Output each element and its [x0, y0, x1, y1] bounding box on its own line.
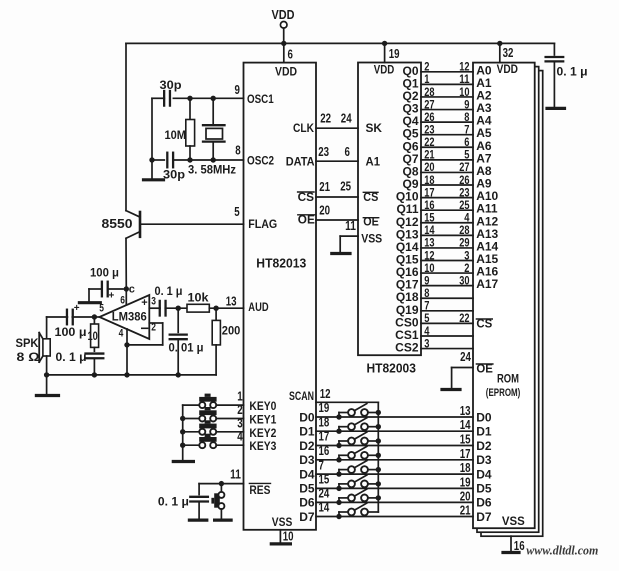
- svg-text:21: 21: [319, 180, 330, 194]
- svg-text:DATA: DATA: [286, 155, 315, 169]
- svg-text:OSC2: OSC2: [247, 154, 274, 168]
- svg-text:6: 6: [345, 145, 350, 159]
- svg-text:OE: OE: [298, 213, 315, 227]
- svg-text:17: 17: [460, 447, 471, 461]
- svg-text:SK: SK: [366, 121, 383, 135]
- svg-text:18: 18: [460, 461, 471, 475]
- svg-text:24: 24: [341, 112, 352, 126]
- svg-text:CS2: CS2: [395, 341, 419, 355]
- svg-text:D1: D1: [299, 425, 315, 439]
- svg-text:KEY2: KEY2: [249, 426, 276, 440]
- svg-text:ROM: ROM: [497, 372, 519, 386]
- svg-text:HT82013: HT82013: [256, 256, 306, 270]
- svg-text:3. 58MHz: 3. 58MHz: [188, 163, 236, 177]
- svg-text:5: 5: [99, 303, 104, 315]
- svg-text:16: 16: [319, 444, 330, 458]
- svg-text:10: 10: [283, 530, 294, 544]
- svg-text:11: 11: [230, 467, 241, 481]
- svg-text:D4: D4: [476, 467, 492, 481]
- svg-text:D5: D5: [299, 482, 315, 496]
- svg-text:c: c: [129, 284, 135, 296]
- svg-text:6: 6: [288, 48, 293, 62]
- svg-text:19: 19: [319, 401, 330, 415]
- svg-text:D5: D5: [476, 482, 492, 496]
- svg-text:20: 20: [460, 489, 471, 503]
- svg-text:VDD: VDD: [497, 62, 519, 76]
- svg-text:D6: D6: [476, 496, 492, 510]
- svg-text:5: 5: [234, 205, 239, 219]
- svg-text:8: 8: [235, 144, 240, 158]
- svg-text:30p: 30p: [163, 168, 185, 182]
- svg-text:17: 17: [319, 430, 330, 444]
- svg-text:19: 19: [389, 47, 400, 61]
- svg-text:4: 4: [119, 328, 124, 340]
- svg-text:0. 01 μ: 0. 01 μ: [169, 341, 204, 355]
- svg-text:13: 13: [226, 295, 237, 309]
- svg-text:KEY3: KEY3: [249, 439, 276, 453]
- svg-text:4: 4: [237, 430, 242, 444]
- svg-text:+: +: [109, 291, 115, 302]
- svg-text:CS: CS: [476, 317, 492, 331]
- svg-text:VDD: VDD: [374, 63, 395, 77]
- svg-text:0. 1 μ: 0. 1 μ: [155, 284, 183, 298]
- svg-text:SPK: SPK: [16, 336, 39, 350]
- svg-text:13: 13: [460, 404, 471, 418]
- svg-text:D0: D0: [299, 410, 315, 424]
- svg-text:12: 12: [320, 387, 331, 401]
- svg-text:CS: CS: [363, 190, 378, 204]
- svg-text:D7: D7: [476, 510, 492, 524]
- svg-text:19: 19: [460, 475, 471, 489]
- svg-text:22: 22: [320, 112, 331, 126]
- svg-text:0. 1 μ: 0. 1 μ: [557, 65, 588, 79]
- svg-text:24: 24: [460, 350, 471, 364]
- svg-text:14: 14: [460, 418, 471, 432]
- svg-text:OE: OE: [476, 362, 493, 376]
- svg-text:+: +: [74, 303, 80, 314]
- svg-text:3: 3: [237, 416, 242, 430]
- svg-text:A1: A1: [366, 155, 381, 169]
- svg-text:D2: D2: [299, 439, 315, 453]
- svg-text:+: +: [141, 297, 147, 309]
- svg-text:VSS: VSS: [502, 514, 525, 528]
- svg-text:LM386: LM386: [112, 310, 147, 324]
- svg-text:10M: 10M: [165, 128, 187, 142]
- svg-text:D1: D1: [476, 425, 492, 439]
- svg-text:HT82003: HT82003: [367, 362, 416, 376]
- svg-text:D2: D2: [476, 439, 492, 453]
- svg-text:18: 18: [319, 415, 330, 429]
- svg-text:3: 3: [424, 336, 429, 350]
- svg-text:OE: OE: [363, 215, 379, 229]
- svg-text:25: 25: [340, 180, 351, 194]
- svg-text:OSC1: OSC1: [247, 92, 274, 106]
- svg-text:D0: D0: [476, 410, 492, 424]
- svg-text:www.dltdl.com: www.dltdl.com: [526, 543, 598, 558]
- svg-text:CS: CS: [298, 190, 314, 204]
- svg-text:VDD: VDD: [272, 8, 295, 22]
- svg-text:RES: RES: [249, 483, 270, 497]
- svg-text:22: 22: [459, 311, 470, 325]
- svg-text:0. 1 μ: 0. 1 μ: [158, 495, 189, 509]
- svg-text:24: 24: [319, 487, 330, 501]
- svg-text:KEY1: KEY1: [249, 413, 276, 427]
- svg-text:30p: 30p: [160, 78, 182, 92]
- svg-text:15: 15: [460, 433, 471, 447]
- svg-text:100 μ: 100 μ: [90, 266, 119, 280]
- svg-text:VDD: VDD: [275, 65, 297, 79]
- svg-text:8550: 8550: [102, 216, 133, 231]
- svg-text:14: 14: [319, 501, 330, 515]
- svg-text:D4: D4: [299, 467, 315, 481]
- svg-text:A17: A17: [476, 277, 498, 291]
- svg-text:2: 2: [237, 403, 242, 417]
- svg-text:D6: D6: [299, 496, 315, 510]
- svg-text:32: 32: [503, 46, 514, 60]
- svg-text:(EPROM): (EPROM): [486, 387, 521, 399]
- svg-text:200: 200: [222, 324, 241, 338]
- svg-text:10k: 10k: [188, 291, 209, 305]
- svg-text:9: 9: [235, 83, 240, 97]
- svg-text:11: 11: [345, 219, 356, 233]
- svg-text:10: 10: [88, 329, 99, 343]
- svg-text:6: 6: [120, 295, 125, 307]
- svg-text:30: 30: [459, 273, 470, 287]
- svg-text:7: 7: [319, 458, 324, 472]
- svg-text:1: 1: [237, 390, 242, 404]
- svg-text:20: 20: [319, 204, 330, 218]
- svg-text:8 Ω: 8 Ω: [17, 350, 40, 364]
- svg-text:VSS: VSS: [361, 231, 382, 245]
- svg-text:21: 21: [460, 504, 471, 518]
- svg-text:23: 23: [318, 145, 329, 159]
- svg-text:VSS: VSS: [272, 515, 293, 529]
- svg-text:CLK: CLK: [293, 121, 314, 135]
- svg-text:15: 15: [319, 473, 330, 487]
- svg-text:D3: D3: [299, 453, 315, 467]
- svg-text:0. 1 μ: 0. 1 μ: [56, 350, 87, 364]
- svg-text:16: 16: [514, 539, 525, 553]
- svg-text:D3: D3: [476, 453, 492, 467]
- svg-text:D7: D7: [299, 510, 315, 524]
- svg-text:FLAG: FLAG: [248, 217, 277, 231]
- svg-text:KEY0: KEY0: [249, 399, 276, 413]
- svg-text:100 μ: 100 μ: [55, 325, 87, 339]
- svg-text:AUD: AUD: [248, 300, 269, 314]
- svg-text:SCAN: SCAN: [289, 389, 314, 403]
